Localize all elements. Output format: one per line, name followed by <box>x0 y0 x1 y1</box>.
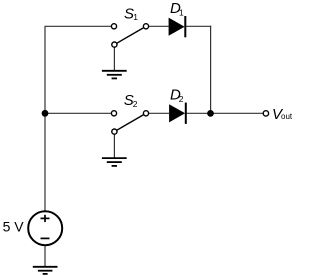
svg-text:5 V: 5 V <box>3 219 25 235</box>
svg-text:1: 1 <box>133 12 138 22</box>
svg-text:1: 1 <box>179 8 184 18</box>
svg-text:out: out <box>281 112 293 121</box>
svg-text:2: 2 <box>179 94 184 104</box>
svg-text:2: 2 <box>133 99 138 109</box>
